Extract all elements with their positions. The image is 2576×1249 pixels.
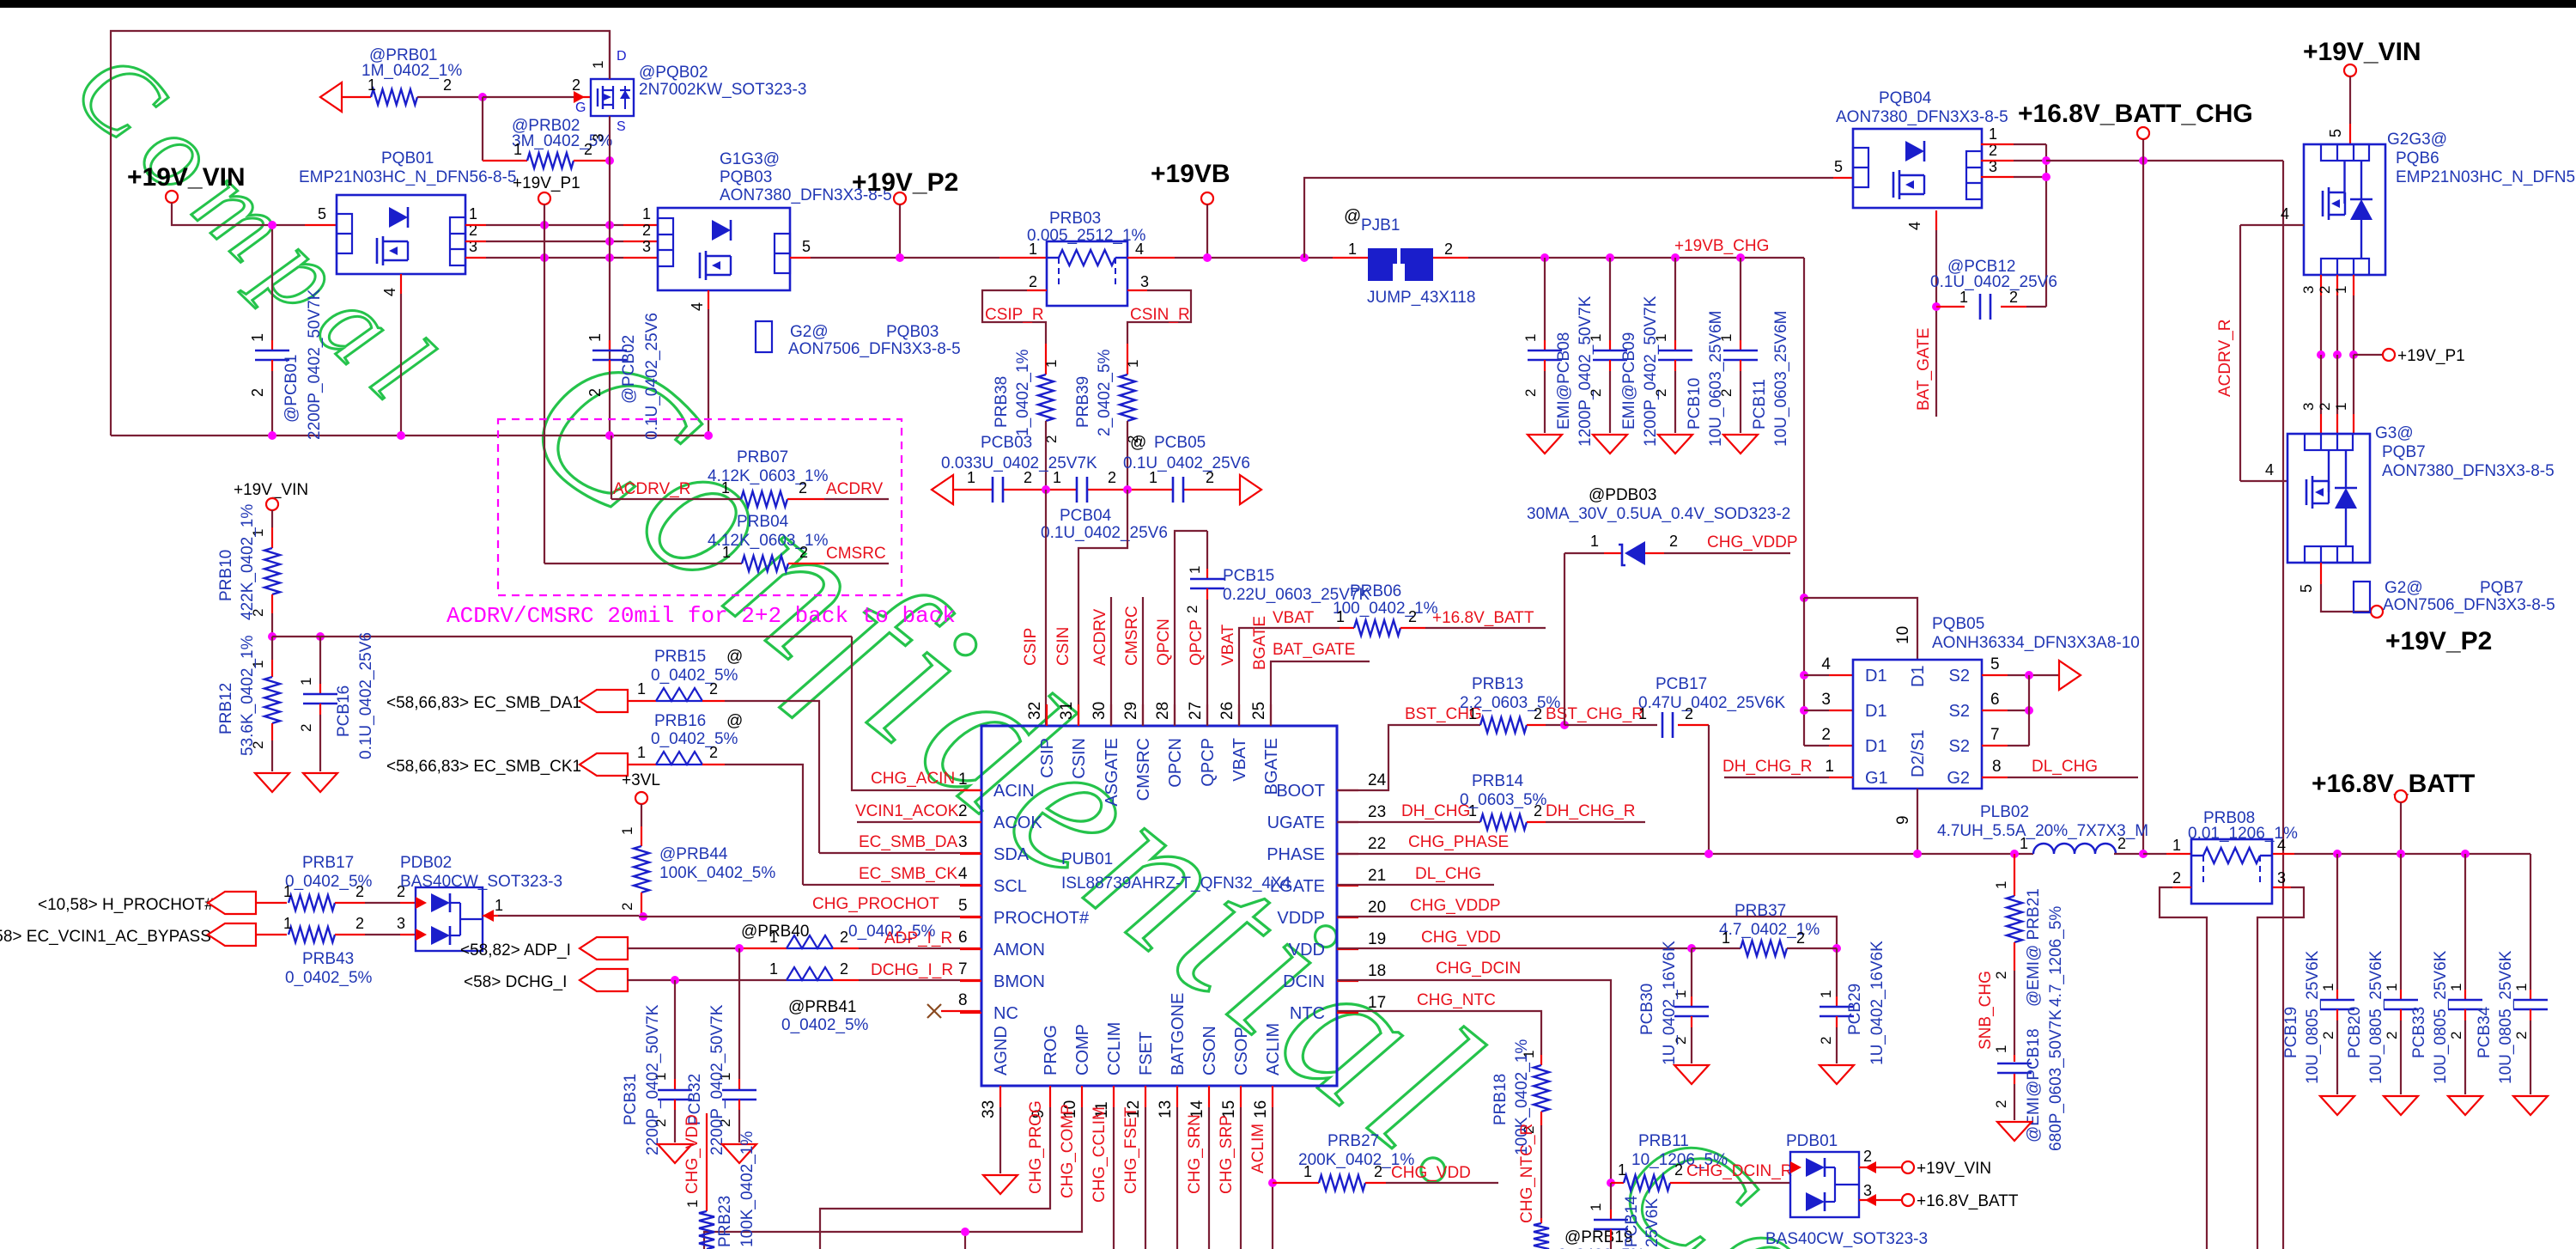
capacitor PCB01 — [249, 225, 324, 440]
svg-text:CHG_VDDP: CHG_VDDP — [1410, 897, 1501, 915]
wire ASGATE stub — [1091, 597, 1111, 726]
ground PCB30 — [1674, 1065, 1709, 1084]
svg-text:2: 2 — [1184, 606, 1200, 613]
svg-text:2: 2 — [1993, 1100, 2009, 1108]
svg-text:4: 4 — [958, 865, 968, 883]
ground PCB10 — [1658, 435, 1692, 454]
svg-text:PRB10: PRB10 — [217, 550, 235, 601]
svg-text:1: 1 — [769, 929, 778, 946]
svg-text:PRB18: PRB18 — [1492, 1074, 1510, 1125]
svg-text:0_0402_5%: 0_0402_5% — [651, 730, 738, 748]
svg-text:AON7506_DFN3X3-8-5: AON7506_DFN3X3-8-5 — [2383, 596, 2555, 614]
svg-text:2: 2 — [840, 929, 848, 946]
svg-text:1U_0402_16V6K: 1U_0402_16V6K — [1661, 941, 1679, 1065]
svg-text:+19VB_CHG: +19VB_CHG — [1674, 237, 1769, 255]
svg-text:<10,58> H_PROCHOT#: <10,58> H_PROCHOT# — [38, 896, 214, 914]
transistor PQB02 — [572, 49, 806, 142]
svg-text:G1G3@: G1G3@ — [720, 150, 780, 168]
capacitor PCB15 on QPCP — [1184, 531, 1370, 726]
svg-text:PRB43: PRB43 — [302, 950, 354, 968]
svg-text:2200P_0402_50V7K: 2200P_0402_50V7K — [644, 1004, 662, 1155]
svg-text:@: @ — [620, 387, 638, 404]
svg-text:PCB11: PCB11 — [1751, 379, 1769, 430]
svg-text:PRB04: PRB04 — [737, 513, 789, 531]
junction +19VB — [1203, 253, 1212, 262]
capacitor PCB12 — [1930, 258, 2057, 320]
svg-text:@: @ — [1130, 434, 1146, 452]
svg-text:S2: S2 — [1949, 737, 1970, 756]
svg-text:1: 1 — [283, 883, 292, 900]
svg-text:G1: G1 — [1865, 769, 1888, 788]
svg-text:@PDB03: @PDB03 — [1589, 486, 1657, 504]
svg-text:1: 1 — [1187, 566, 1203, 574]
svg-text:1: 1 — [1989, 125, 1997, 143]
wire PRB38 to CSIP chain — [1045, 421, 1047, 490]
svg-text:2200P_0402_50V7K: 2200P_0402_50V7K — [708, 1004, 726, 1155]
power +19V_VIN terminal right — [2303, 38, 2421, 76]
svg-text:27: 27 — [1187, 702, 1205, 720]
svg-text:ACDRV: ACDRV — [1091, 609, 1109, 666]
svg-text:PCB02: PCB02 — [620, 335, 638, 387]
svg-text:PRB15: PRB15 — [654, 648, 706, 666]
svg-text:PLB02: PLB02 — [1980, 803, 2029, 821]
net DCHG_I — [464, 960, 981, 1034]
svg-text:4: 4 — [1821, 655, 1831, 673]
svg-text:D: D — [617, 49, 627, 64]
svg-text:+16.8V_BATT: +16.8V_BATT — [1917, 1192, 2019, 1210]
svg-text:VCIN1_ACOK: VCIN1_ACOK — [855, 802, 959, 820]
svg-text:BAT_GATE: BAT_GATE — [1915, 328, 1933, 411]
svg-text:1: 1 — [298, 678, 314, 685]
junction col3 — [2042, 173, 2050, 181]
svg-text:+16.8V_BATT: +16.8V_BATT — [2312, 770, 2475, 798]
wire +19V_VIN to PQB01 pin5 — [172, 203, 337, 225]
svg-text:3: 3 — [1863, 1182, 1872, 1199]
wire CHG_ACIN drop — [852, 637, 981, 790]
svg-text:3: 3 — [2300, 403, 2317, 411]
svg-text:4: 4 — [1906, 222, 1923, 230]
net DL_CHG G2 — [1982, 758, 2138, 777]
svg-text:+19VB: +19VB — [1151, 160, 1230, 188]
junction p1c — [2349, 350, 2358, 359]
svg-text:PQB01: PQB01 — [381, 149, 434, 168]
resistor PRB01 — [320, 46, 483, 112]
svg-text:CSIP: CSIP — [1022, 628, 1040, 666]
svg-text:1: 1 — [721, 479, 730, 497]
junction +19V_P2 — [896, 253, 904, 262]
svg-text:+3VL: +3VL — [622, 771, 660, 789]
svg-text:UGATE: UGATE — [1267, 813, 1325, 832]
wire PQB04 right column — [2045, 144, 2047, 307]
svg-text:BGATE: BGATE — [1251, 616, 1269, 670]
svg-text:CSIN: CSIN — [1070, 738, 1089, 779]
svg-text:PCB10: PCB10 — [1686, 378, 1704, 430]
svg-text:0.1U_0402_25V6: 0.1U_0402_25V6 — [643, 313, 661, 440]
power +19V_P1 terminal right — [2354, 347, 2465, 365]
wire PQB03 pin4 — [704, 290, 713, 440]
resistor PRB10 — [217, 504, 280, 637]
svg-text:PQB7: PQB7 — [2382, 443, 2426, 461]
svg-text:NTC: NTC — [1290, 1004, 1325, 1023]
svg-text:CHG_PHASE: CHG_PHASE — [1408, 833, 1509, 851]
svg-text:3: 3 — [590, 134, 606, 142]
svg-text:32: 32 — [1026, 702, 1044, 720]
svg-text:AON7506_DFN3X3-8-5: AON7506_DFN3X3-8-5 — [788, 340, 961, 358]
svg-text:1: 1 — [1336, 608, 1345, 625]
svg-text:1: 1 — [1718, 334, 1735, 342]
svg-text:PJB1: PJB1 — [1361, 216, 1400, 235]
svg-text:4: 4 — [2281, 205, 2289, 222]
net CHG_VDDP pin20 — [1337, 897, 1837, 948]
wire CSIN drop — [1054, 490, 1127, 726]
svg-text:PRB23: PRB23 — [716, 1196, 734, 1247]
svg-text:PCB05: PCB05 — [1154, 434, 1206, 452]
svg-text:0.1U_0402_25V6: 0.1U_0402_25V6 — [357, 632, 375, 759]
svg-text:2: 2 — [1818, 1037, 1834, 1045]
svg-text:EMI@PCB09: EMI@PCB09 — [1620, 332, 1638, 430]
symbol AON7506 G2 PQB03 — [756, 321, 961, 358]
svg-text:PDB01: PDB01 — [1786, 1132, 1838, 1150]
svg-text:1: 1 — [1818, 990, 1834, 998]
svg-text:PRB16: PRB16 — [654, 712, 706, 730]
wire PQB7 pin5 to +19V_P2 — [2298, 563, 2371, 612]
wire +19V_VIN to PQB6 — [2327, 76, 2350, 144]
ground PCB32 — [722, 1144, 756, 1163]
junction w1 x710 — [605, 221, 614, 229]
svg-text:JUMP_43X118: JUMP_43X118 — [1367, 289, 1475, 307]
svg-text:4: 4 — [2265, 461, 2274, 478]
svg-text:1: 1 — [590, 61, 606, 69]
svg-text:<58,66,83> EC_SMB_CK1: <58,66,83> EC_SMB_CK1 — [386, 758, 581, 776]
svg-text:PRB38: PRB38 — [993, 376, 1011, 428]
svg-text:2: 2 — [298, 724, 314, 732]
svg-text:PRB03: PRB03 — [1049, 210, 1101, 228]
svg-text:422K_0402_1%: 422K_0402_1% — [239, 504, 257, 620]
svg-text:CHG_ACIN: CHG_ACIN — [871, 770, 955, 788]
net CHG_PHASE rail — [1337, 833, 2033, 854]
wire main rail PQB03 pin5 to PJB1 — [790, 257, 1047, 259]
svg-text:1: 1 — [1125, 360, 1141, 368]
svg-text:1: 1 — [684, 1200, 701, 1208]
wire CHG_ACIN long — [272, 636, 852, 637]
svg-text:3: 3 — [642, 238, 651, 255]
resistor PRB04 — [708, 513, 889, 571]
svg-text:1: 1 — [1722, 929, 1730, 947]
wire CMSRC row — [544, 563, 742, 564]
junction PCB01 bottom — [268, 431, 276, 440]
svg-text:2: 2 — [1863, 1148, 1872, 1165]
svg-text:1: 1 — [1029, 241, 1037, 258]
svg-text:DH_CHG_R: DH_CHG_R — [1546, 802, 1636, 820]
svg-text:PCB03: PCB03 — [981, 434, 1032, 452]
wire +19V_P1 column / CMSRC drop — [544, 204, 545, 564]
net CHG_SRP — [1218, 1107, 1241, 1249]
wire input border box — [111, 31, 610, 436]
svg-text:EC_SMB_DA: EC_SMB_DA — [859, 833, 957, 851]
svg-text:ADP_I_R: ADP_I_R — [884, 929, 952, 947]
svg-text:BAS40CW_SOT323-3: BAS40CW_SOT323-3 — [1765, 1230, 1928, 1248]
svg-text:BST_CHG_R: BST_CHG_R — [1546, 705, 1643, 723]
wire to PQB7 — [2300, 355, 2354, 434]
net CSIP_R kelvin — [982, 290, 1047, 375]
svg-text:4: 4 — [381, 288, 398, 296]
svg-text:1: 1 — [637, 680, 646, 698]
svg-text:S2: S2 — [1949, 702, 1970, 721]
svg-text:DH_CHG_R: DH_CHG_R — [1722, 758, 1813, 776]
svg-text:BATGONE: BATGONE — [1169, 993, 1188, 1075]
junction DCHG PCB31 — [671, 976, 679, 984]
svg-text:2: 2 — [1653, 389, 1669, 397]
svg-text:2: 2 — [1796, 929, 1805, 947]
svg-text:10: 10 — [1894, 626, 1912, 644]
svg-text:1: 1 — [2320, 984, 2336, 991]
junction p1a — [2317, 350, 2325, 359]
svg-text:G2@: G2@ — [790, 323, 829, 341]
svg-text:2: 2 — [709, 744, 718, 761]
svg-text:5: 5 — [318, 205, 326, 222]
svg-text:ACDRV_R: ACDRV_R — [2216, 320, 2234, 397]
svg-text:BAT_GATE: BAT_GATE — [1273, 641, 1355, 659]
svg-text:PCB29: PCB29 — [1846, 984, 1864, 1035]
junction ind out — [2139, 850, 2148, 858]
svg-text:2: 2 — [840, 960, 848, 978]
ground EMI@PCB08 — [1528, 435, 1562, 454]
wire BATT_CHG riser to rail — [2142, 161, 2144, 854]
svg-text:G: G — [575, 101, 586, 115]
svg-text:QPCN: QPCN — [1155, 618, 1173, 666]
svg-text:VDDP: VDDP — [1277, 909, 1325, 928]
svg-text:25V6K: 25V6K — [1643, 1198, 1662, 1247]
capacitor PCB20 — [2346, 854, 2418, 1094]
svg-text:7: 7 — [1990, 726, 2000, 744]
annotation dashed box ACDRV/CMSRC — [498, 419, 902, 595]
svg-text:+19V_P2: +19V_P2 — [852, 168, 958, 197]
svg-text:PRB37: PRB37 — [1735, 902, 1786, 920]
svg-text:1: 1 — [469, 205, 477, 222]
svg-text:0_0402_5%: 0_0402_5% — [651, 667, 738, 685]
ground PCB11 — [1723, 435, 1758, 454]
svg-text:10U_0603_25V6M: 10U_0603_25V6M — [1772, 311, 1790, 447]
svg-text:PRB14: PRB14 — [1472, 772, 1524, 790]
ground PCB33 — [2448, 1096, 2482, 1115]
svg-text:1: 1 — [1522, 334, 1539, 342]
svg-text:CSON: CSON — [1200, 1026, 1219, 1075]
power +19V_VIN terminal — [127, 163, 246, 203]
svg-text:AMON: AMON — [993, 941, 1045, 960]
junction csip — [1042, 485, 1050, 494]
junction PCB01 top — [268, 221, 276, 229]
capacitor PCB18 — [1993, 1009, 2065, 1151]
resistor PRB14 — [1460, 772, 1645, 830]
power +3VL terminal — [622, 771, 660, 804]
svg-text:5: 5 — [2298, 584, 2315, 593]
svg-text:DL_CHG: DL_CHG — [2032, 758, 2098, 776]
IC U PUB01 ISL88739 — [981, 726, 1337, 1086]
svg-text:100K_0402_5%: 100K_0402_5% — [659, 864, 775, 882]
capacitor PCB10 — [1653, 253, 1725, 447]
transistor PQB01 — [299, 149, 516, 296]
wire +19VB stub — [1206, 204, 1208, 258]
svg-text:@PQB02: @PQB02 — [639, 64, 708, 82]
power +19V_VIN terminal small — [234, 481, 308, 510]
net BST_CHG / PRB13 — [1337, 705, 1482, 790]
diode PDB01 — [1765, 1132, 1928, 1248]
resistor PRB11 — [1611, 1132, 1793, 1191]
wire BATT_CHG horizontal — [2046, 160, 2283, 161]
wire CMSRC stub — [1123, 597, 1143, 726]
wire BGATE BAT_GATE — [1251, 616, 1370, 726]
svg-text:7: 7 — [958, 960, 968, 978]
svg-text:8: 8 — [958, 991, 968, 1009]
svg-text:,58> EC_VCIN1_AC_BYPASS: ,58> EC_VCIN1_AC_BYPASS — [0, 928, 211, 946]
svg-text:1: 1 — [958, 771, 968, 789]
power +19VB terminal — [1151, 160, 1230, 204]
svg-text:1: 1 — [1653, 334, 1669, 342]
watermark Compal diagonal — [52, 28, 468, 436]
junction pcb16 col — [316, 632, 325, 641]
net label BAT_GATE — [1915, 328, 1933, 411]
svg-text:26: 26 — [1218, 702, 1236, 720]
capacitor PCB17 — [1564, 675, 1785, 854]
capacitor PCB30 — [1638, 941, 1709, 1065]
svg-text:2: 2 — [1534, 705, 1542, 722]
svg-text:DL_CHG: DL_CHG — [1415, 865, 1481, 883]
svg-text:1: 1 — [586, 333, 604, 342]
resistor PRB37 — [1692, 902, 1837, 956]
net CHG_FSET — [1122, 1106, 1145, 1249]
svg-text:D1: D1 — [1865, 737, 1887, 756]
svg-text:2: 2 — [2513, 1032, 2530, 1039]
junction ADP PCB32 — [735, 944, 744, 953]
junction vddp pcb29 — [1832, 944, 1841, 953]
wire PRB02 riser — [482, 97, 483, 161]
svg-text:PCB34: PCB34 — [2476, 1006, 2494, 1058]
svg-text:+19V_VIN: +19V_VIN — [234, 481, 308, 499]
svg-text:2N7002KW_SOT323-3: 2N7002KW_SOT323-3 — [639, 81, 806, 99]
svg-text:@: @ — [726, 648, 743, 666]
capacitor PCB19 — [2282, 854, 2354, 1094]
svg-text:0_0402_5%: 0_0402_5% — [285, 969, 373, 987]
transistor PQB04 — [1834, 89, 2008, 230]
wire VCIN1_ACOK — [855, 802, 981, 822]
svg-text:1: 1 — [1590, 533, 1599, 550]
net EC_VCIN1_AC_BYPASS — [0, 915, 416, 987]
svg-text:13: 13 — [1157, 1100, 1175, 1118]
net DL_CHG — [1337, 865, 1494, 885]
svg-text:2: 2 — [1408, 608, 1417, 625]
junction PRB01-PRB02 — [478, 93, 487, 101]
svg-text:2: 2 — [799, 544, 808, 561]
svg-text:ACLIM: ACLIM — [1264, 1023, 1283, 1075]
svg-text:CMSRC: CMSRC — [1123, 606, 1141, 666]
svg-text:1: 1 — [2333, 286, 2349, 294]
resistor PRB38 — [993, 349, 1060, 443]
junction col2 — [2042, 156, 2050, 165]
svg-text:EMP21N03HC_N_DFN56-8-5: EMP21N03HC_N_DFN56-8-5 — [299, 168, 516, 186]
svg-text:BGATE: BGATE — [1262, 738, 1281, 795]
wire PRB08 kelvin right — [2257, 887, 2304, 1249]
svg-text:PCB31: PCB31 — [622, 1074, 640, 1125]
svg-text:1200P_0402_50V7K: 1200P_0402_50V7K — [1577, 295, 1595, 447]
resistor PRB19 — [1534, 1218, 1645, 1249]
svg-text:CHG_DCIN_R: CHG_DCIN_R — [1686, 1162, 1793, 1180]
junction p1b — [2333, 350, 2342, 359]
svg-text:ACIN: ACIN — [993, 782, 1035, 801]
net CHG_CCLIM — [1091, 1106, 1114, 1249]
svg-text:2: 2 — [799, 479, 807, 497]
capacitor PCB03 — [941, 434, 1097, 503]
svg-text:1: 1 — [1825, 758, 1834, 776]
resistor PRB21 snubber — [1977, 854, 2065, 1055]
wire PDB02 out CHG_PROCHOT — [483, 895, 981, 917]
svg-text:PRB06: PRB06 — [1350, 582, 1401, 600]
capacitor PCB08 — [1522, 253, 1595, 447]
svg-text:CHG_VDD: CHG_VDD — [1421, 929, 1501, 947]
svg-text:2: 2 — [1534, 802, 1542, 819]
svg-text:16: 16 — [1252, 1100, 1270, 1118]
wire x710 column — [609, 161, 611, 436]
svg-text:D1: D1 — [1909, 665, 1928, 687]
svg-text:1: 1 — [249, 333, 266, 342]
transistor PQB05 AONH36334 — [1821, 615, 2139, 789]
net DH_CHG / PRB14 — [1337, 802, 1480, 822]
wire PQB04 pins to column — [1981, 144, 2046, 177]
svg-text:53.6K_0402_1%: 53.6K_0402_1% — [239, 635, 257, 756]
svg-text:2: 2 — [2117, 835, 2126, 852]
net CHG_NTC pin17 — [1337, 991, 1541, 1055]
svg-text:2: 2 — [443, 76, 452, 94]
svg-text:4: 4 — [1135, 241, 1144, 258]
wire cap chain — [953, 489, 1240, 490]
svg-text:2: 2 — [2172, 869, 2181, 886]
svg-text:1: 1 — [2384, 984, 2400, 991]
svg-text:G2G3@: G2G3@ — [2387, 131, 2447, 149]
svg-text:PRB12: PRB12 — [217, 683, 235, 734]
net DH_CHG_R to G1 — [1722, 758, 1853, 777]
svg-text:0.47U_0402_25V6K: 0.47U_0402_25V6K — [1638, 694, 1785, 712]
svg-text:100K_0402_1%: 100K_0402_1% — [738, 1131, 756, 1247]
svg-text:6: 6 — [1990, 691, 2000, 709]
capacitor PCB04 — [1041, 469, 1168, 542]
net +16.8V_BATT rail — [2273, 853, 2530, 855]
IC pin numbers — [980, 702, 1387, 1118]
junction vdd pcb30 — [1687, 944, 1696, 953]
svg-text:PCB04: PCB04 — [1060, 507, 1112, 525]
capacitor PCB09 — [1588, 253, 1660, 447]
resistor PRB23 CHG_VDD — [683, 1113, 756, 1249]
svg-text:30: 30 — [1091, 702, 1109, 720]
svg-text:1: 1 — [642, 205, 651, 222]
svg-text:SDA: SDA — [993, 845, 1030, 864]
svg-text:D1: D1 — [1865, 667, 1887, 685]
svg-text:20: 20 — [1368, 899, 1386, 917]
svg-text:2: 2 — [1674, 1161, 1683, 1179]
svg-text:1: 1 — [1348, 241, 1357, 258]
arrow csip chain left — [932, 475, 953, 504]
svg-text:CMSRC: CMSRC — [826, 545, 886, 563]
wire EC_SMB_DA to pin3 — [819, 833, 981, 853]
svg-text:CSIN_R: CSIN_R — [1130, 306, 1190, 324]
junction snb — [2010, 850, 2019, 858]
svg-text:+19V_P2: +19V_P2 — [2385, 627, 2492, 655]
svg-text:0.1U_0402_25V6: 0.1U_0402_25V6 — [1123, 454, 1250, 472]
ground EMI@PCB09 — [1593, 435, 1627, 454]
svg-text:2: 2 — [958, 802, 968, 820]
svg-text:DCIN: DCIN — [1283, 972, 1325, 991]
svg-text:2: 2 — [249, 388, 266, 397]
svg-text:29: 29 — [1122, 702, 1140, 720]
wire net2 PQB01-2 to PQB03-2 — [465, 241, 658, 242]
